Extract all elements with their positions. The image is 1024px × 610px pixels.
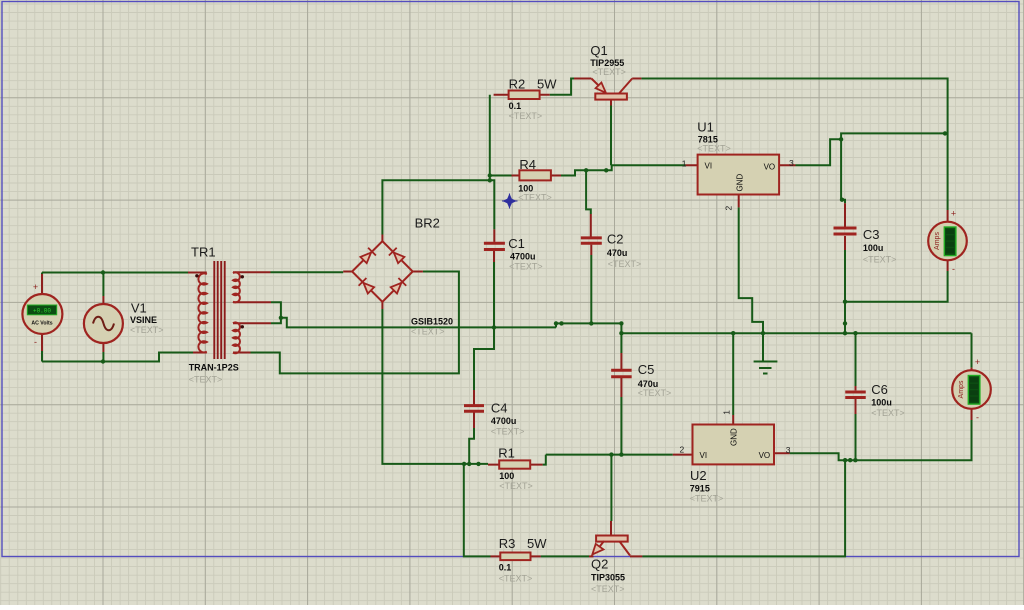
svg-text:<TEXT>: <TEXT>	[509, 261, 543, 271]
svg-text:2: 2	[724, 206, 734, 211]
svg-text:<TEXT>: <TEXT>	[491, 427, 525, 437]
svg-text:GND: GND	[736, 174, 745, 192]
svg-text:4700u: 4700u	[510, 252, 536, 262]
svg-text:Amps: Amps	[958, 380, 965, 398]
svg-text:Q2: Q2	[591, 556, 608, 571]
svg-text:VSINE: VSINE	[130, 315, 157, 325]
svg-text:<TEXT>: <TEXT>	[130, 325, 164, 335]
svg-text:<TEXT>: <TEXT>	[863, 255, 897, 265]
svg-text:BR2: BR2	[415, 216, 440, 231]
svg-text:VI: VI	[700, 451, 708, 460]
svg-text:+: +	[951, 209, 956, 219]
svg-text:TR1: TR1	[191, 245, 216, 260]
svg-text:<TEXT>: <TEXT>	[608, 259, 642, 269]
svg-text:C3: C3	[863, 227, 880, 242]
svg-text:<TEXT>: <TEXT>	[690, 494, 724, 504]
svg-text:U1: U1	[697, 119, 714, 134]
svg-text:TRAN-1P2S: TRAN-1P2S	[189, 363, 239, 373]
svg-text:C2: C2	[607, 232, 624, 247]
svg-text:GND: GND	[730, 428, 739, 446]
svg-text:+0.00: +0.00	[33, 308, 51, 315]
svg-text:C5: C5	[638, 362, 655, 377]
svg-text:Q1: Q1	[590, 43, 607, 58]
svg-text:2: 2	[680, 445, 685, 455]
svg-text:<TEXT>: <TEXT>	[591, 584, 625, 594]
svg-text:<TEXT>: <TEXT>	[518, 193, 552, 203]
svg-text:-: -	[952, 264, 955, 274]
svg-text:0.1: 0.1	[509, 101, 522, 111]
svg-text:TIP3055: TIP3055	[591, 573, 625, 583]
svg-text:R1: R1	[498, 445, 515, 460]
svg-text:U2: U2	[690, 468, 707, 483]
svg-text:+: +	[975, 357, 980, 367]
svg-text:<TEXT>: <TEXT>	[411, 327, 445, 337]
svg-text:C6: C6	[871, 382, 888, 397]
svg-text:R3: R3	[499, 536, 516, 551]
svg-text:<TEXT>: <TEXT>	[697, 143, 731, 153]
svg-text:100: 100	[499, 471, 514, 481]
svg-text:<TEXT>: <TEXT>	[499, 481, 533, 491]
svg-text:GSIB1520: GSIB1520	[411, 317, 453, 327]
svg-text:R2: R2	[509, 77, 526, 92]
svg-text:C1: C1	[508, 236, 525, 251]
svg-text:3: 3	[786, 445, 791, 455]
svg-text:<TEXT>: <TEXT>	[592, 67, 626, 77]
svg-text:VO: VO	[764, 162, 776, 171]
svg-text:470u: 470u	[607, 248, 628, 258]
svg-text:<TEXT>: <TEXT>	[499, 574, 533, 584]
svg-text:4700u: 4700u	[491, 416, 517, 426]
svg-text:<TEXT>: <TEXT>	[638, 388, 672, 398]
svg-text:100u: 100u	[871, 397, 892, 407]
svg-text:100u: 100u	[863, 243, 884, 253]
svg-text:Amps: Amps	[934, 232, 941, 250]
svg-text:VO: VO	[759, 451, 771, 460]
svg-text:V1: V1	[131, 300, 147, 315]
svg-text:R4: R4	[519, 157, 536, 172]
svg-text:5W: 5W	[537, 77, 557, 92]
svg-text:7915: 7915	[690, 484, 710, 494]
svg-text:<TEXT>: <TEXT>	[509, 111, 543, 121]
svg-text:3: 3	[789, 158, 794, 168]
svg-text:<TEXT>: <TEXT>	[871, 408, 905, 418]
svg-text:1: 1	[682, 159, 687, 169]
svg-text:5W: 5W	[527, 536, 547, 551]
svg-text:VI: VI	[705, 162, 713, 171]
svg-text:-: -	[976, 413, 979, 423]
svg-text:1: 1	[722, 410, 732, 415]
svg-text:AC Volts: AC Volts	[31, 320, 52, 326]
svg-text:C4: C4	[491, 401, 508, 416]
svg-text:<TEXT>: <TEXT>	[189, 375, 223, 385]
svg-text:0.1: 0.1	[499, 562, 512, 572]
svg-text:-: -	[34, 337, 37, 347]
svg-text:+: +	[33, 282, 38, 292]
